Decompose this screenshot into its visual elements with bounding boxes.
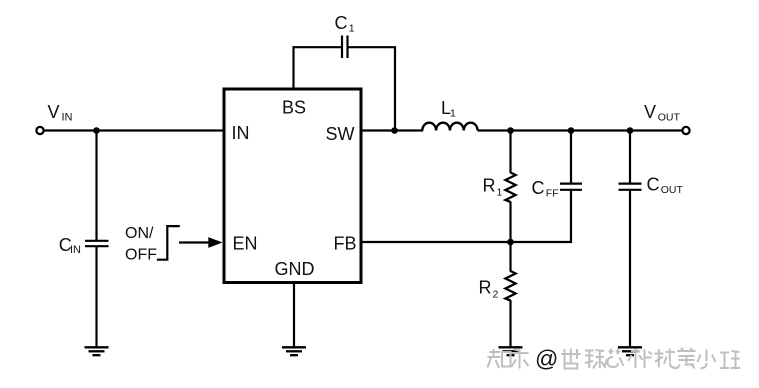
svg-text:GND: GND xyxy=(275,259,315,279)
svg-text:IN: IN xyxy=(70,244,81,256)
svg-text:1: 1 xyxy=(450,108,456,120)
wire EN arrow xyxy=(179,241,210,243)
resistor R2 xyxy=(509,242,511,272)
IC U1 body xyxy=(224,89,361,283)
svg-text:V: V xyxy=(48,102,60,122)
node VIN terminal xyxy=(36,127,43,134)
svg-text:1: 1 xyxy=(497,187,503,199)
svg-text:FF: FF xyxy=(546,188,559,200)
ground COUT xyxy=(618,347,642,355)
node VOUT terminal xyxy=(682,127,689,134)
svg-text:FB: FB xyxy=(334,234,357,254)
svg-text:@: @ xyxy=(535,346,558,372)
junction SW node xyxy=(391,127,398,134)
svg-text:EN: EN xyxy=(233,234,258,254)
junction FB node xyxy=(507,239,514,246)
svg-text:R: R xyxy=(479,278,492,298)
svg-text:C: C xyxy=(532,178,545,198)
capacitor C1 xyxy=(341,36,343,59)
svg-text:BS: BS xyxy=(282,98,306,118)
svg-text:OUT: OUT xyxy=(658,112,681,124)
ground R2 xyxy=(499,347,523,355)
svg-text:IN: IN xyxy=(232,123,250,143)
signal edge symbol xyxy=(157,226,180,260)
svg-text:1: 1 xyxy=(349,23,355,35)
capacitor CFF xyxy=(570,131,572,184)
wire C1 right to SW node xyxy=(349,47,396,130)
svg-text:IN: IN xyxy=(62,112,73,124)
wire BS to C1 left xyxy=(293,46,342,48)
wire CIN upper xyxy=(95,131,97,241)
junction COUT node xyxy=(627,127,634,134)
wire VIN to IN pin xyxy=(44,129,224,131)
wire CIN lower xyxy=(95,247,97,347)
wire FB xyxy=(361,241,572,243)
svg-text:R: R xyxy=(483,176,496,196)
wire BS pin up xyxy=(292,46,294,89)
junction CFF node xyxy=(568,127,575,134)
capacitor CIN xyxy=(85,240,109,242)
svg-text:OUT: OUT xyxy=(661,184,684,196)
wire SW pin to inductor xyxy=(361,129,423,131)
wire GND pin down xyxy=(293,283,295,348)
junction R1 node xyxy=(507,127,514,134)
watermark 知乎 xyxy=(488,349,529,369)
svg-text:OFF: OFF xyxy=(125,247,157,264)
capacitor COUT xyxy=(629,131,631,184)
svg-text:C: C xyxy=(647,175,660,195)
wire L1 to VOUT xyxy=(478,129,683,131)
svg-text:ON/: ON/ xyxy=(125,225,154,242)
ground CIN xyxy=(85,347,109,355)
ground GND pin xyxy=(282,347,306,355)
svg-text:SW: SW xyxy=(326,124,355,144)
svg-text:V: V xyxy=(644,102,656,122)
resistor R1 xyxy=(509,131,511,174)
watermark 世联芯科技蔡小姐 xyxy=(561,348,741,369)
svg-text:2: 2 xyxy=(493,289,499,301)
junction CIN node xyxy=(93,127,100,134)
inductor L1 xyxy=(422,123,477,131)
svg-text:C: C xyxy=(335,13,348,33)
